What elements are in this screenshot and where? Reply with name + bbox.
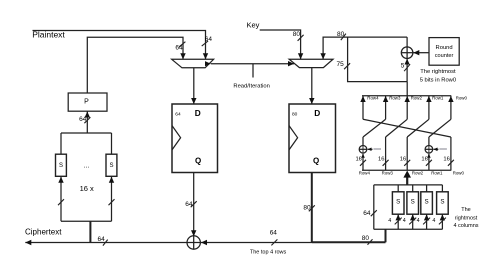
svg-text:Key: Key: [247, 21, 260, 30]
svg-text:64: 64: [175, 44, 183, 51]
svg-text:16: 16: [378, 157, 384, 163]
svg-text:64: 64: [270, 230, 278, 237]
svg-text:counter: counter: [435, 53, 454, 59]
svg-text:16: 16: [400, 157, 406, 163]
svg-text:Row4: Row4: [359, 171, 371, 176]
svg-text:75: 75: [337, 61, 345, 68]
svg-text:Q: Q: [313, 157, 319, 166]
svg-text:4: 4: [417, 218, 420, 224]
svg-text:D: D: [314, 108, 320, 118]
svg-text:16 x: 16 x: [80, 184, 94, 193]
svg-text:4: 4: [432, 218, 435, 224]
svg-text:...: ...: [83, 163, 89, 170]
svg-text:S: S: [411, 199, 415, 206]
svg-text:S: S: [109, 163, 113, 169]
svg-text:64: 64: [205, 36, 213, 43]
svg-text:64: 64: [363, 210, 371, 217]
svg-text:64: 64: [185, 201, 193, 208]
svg-text:Row3: Row3: [389, 95, 401, 100]
svg-text:4 columns: 4 columns: [453, 223, 478, 229]
svg-text:64: 64: [175, 112, 181, 118]
svg-text:Row2: Row2: [411, 95, 423, 100]
svg-text:Row3: Row3: [382, 171, 394, 176]
svg-text:4: 4: [388, 218, 391, 224]
svg-text:Read/Iteration: Read/Iteration: [233, 83, 269, 89]
svg-text:16: 16: [421, 157, 427, 163]
svg-text:Row4: Row4: [367, 95, 379, 100]
svg-text:rightmost: rightmost: [455, 215, 478, 221]
svg-text:The rightmost: The rightmost: [420, 69, 456, 75]
svg-text:64: 64: [79, 116, 87, 123]
svg-text:S: S: [59, 163, 63, 169]
svg-text:16: 16: [355, 157, 361, 163]
svg-text:S: S: [396, 199, 400, 206]
svg-text:P: P: [84, 98, 89, 105]
svg-text:The: The: [461, 207, 470, 213]
svg-text:4: 4: [403, 218, 406, 224]
svg-text:Q: Q: [195, 157, 201, 166]
svg-text:80: 80: [293, 31, 301, 38]
svg-text:Row0: Row0: [453, 171, 465, 176]
svg-text:80: 80: [337, 31, 345, 38]
svg-text:S: S: [440, 199, 444, 206]
svg-text:Row2: Row2: [412, 171, 424, 176]
svg-text:80: 80: [362, 235, 370, 242]
svg-text:64: 64: [98, 236, 106, 243]
svg-text:Row0: Row0: [456, 95, 468, 100]
svg-text:80: 80: [303, 205, 311, 212]
svg-text:16: 16: [443, 157, 449, 163]
svg-text:80: 80: [292, 112, 298, 118]
svg-text:Row1: Row1: [431, 171, 443, 176]
svg-text:The top 4 rows: The top 4 rows: [250, 250, 287, 256]
svg-text:Row1: Row1: [432, 95, 444, 100]
svg-text:D: D: [195, 108, 201, 118]
svg-text:Plaintext: Plaintext: [32, 30, 65, 40]
svg-text:Round: Round: [436, 45, 453, 51]
svg-text:5 bits in Row0: 5 bits in Row0: [420, 78, 456, 84]
svg-text:S: S: [425, 199, 429, 206]
svg-text:Ciphertext: Ciphertext: [25, 228, 62, 237]
svg-text:5: 5: [401, 62, 405, 69]
